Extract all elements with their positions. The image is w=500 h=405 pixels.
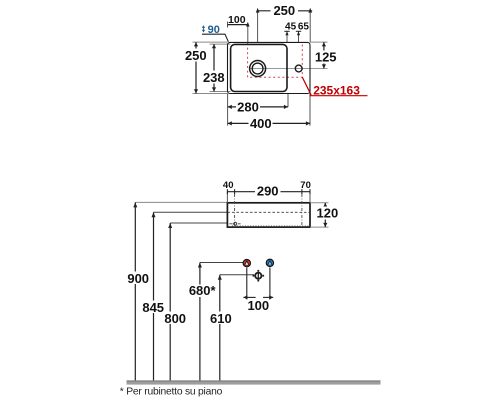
extension left edge up bbox=[227, 22, 229, 28]
arrowhead 845 bbox=[152, 212, 156, 217]
tick 40 left bbox=[226, 189, 228, 194]
svg-text:290: 290 bbox=[257, 183, 279, 198]
basin outer rect (top view) bbox=[228, 42, 311, 93]
svg-text:45: 45 bbox=[285, 22, 297, 33]
blue height symbol bbox=[202, 25, 205, 32]
extension line inner top left bbox=[210, 43, 231, 45]
red leader diagonal bbox=[302, 77, 311, 95]
centerline through holes bbox=[250, 68, 328, 70]
dotted bottom line bbox=[232, 225, 309, 227]
dim line 800 bbox=[169, 223, 171, 380]
dim 100 vertical left bbox=[246, 268, 248, 300]
dim line 845 bbox=[153, 212, 155, 380]
svg-text:120: 120 bbox=[317, 206, 339, 221]
extension right edge down bbox=[309, 94, 311, 126]
extension line top edge right bbox=[310, 41, 328, 43]
extension line inner bottom left bbox=[210, 91, 231, 93]
extension 120 top bbox=[310, 202, 329, 204]
level line 610 bbox=[220, 274, 254, 276]
extension left edge down bbox=[227, 94, 229, 126]
dim line 40-290-70 bbox=[227, 191, 310, 193]
dim line 238 bbox=[213, 44, 215, 91]
dim line 900 bbox=[134, 202, 136, 380]
extension drain center up bbox=[257, 9, 259, 43]
hidden line 40 bbox=[234, 194, 236, 227]
svg-text:125: 125 bbox=[315, 49, 337, 64]
tick 70 right bbox=[309, 189, 311, 194]
dim 100 vertical right bbox=[269, 267, 271, 299]
dim line 400 bbox=[228, 122, 310, 124]
tick 70 left bbox=[301, 189, 303, 194]
extension line bottom edge left bbox=[193, 93, 228, 95]
arrowhead 125 bottom bbox=[322, 64, 326, 68]
stem 65 bbox=[298, 31, 300, 42]
level line 680 bbox=[200, 262, 244, 264]
svg-text:280: 280 bbox=[237, 100, 259, 115]
extension bowl-left up bbox=[247, 23, 249, 42]
dim line 250 left bbox=[195, 42, 197, 93]
svg-text:400: 400 bbox=[250, 116, 272, 131]
svg-text:800: 800 bbox=[164, 311, 186, 326]
arrowhead 100 bbox=[246, 22, 250, 27]
svg-text:680*: 680* bbox=[189, 283, 217, 298]
arrowhead 238 top bbox=[212, 44, 216, 48]
svg-text:238: 238 bbox=[203, 70, 225, 85]
extension 120 bottom bbox=[310, 226, 329, 228]
extension line top edge left bbox=[193, 41, 228, 43]
front basin rect bbox=[227, 203, 310, 227]
dim line 125 bbox=[323, 42, 325, 68]
stem 45 bbox=[286, 31, 288, 42]
arrowhead 680 bbox=[198, 263, 202, 268]
arrowhead 125 top bbox=[322, 42, 326, 46]
arrowhead 65 stem bbox=[297, 31, 300, 35]
dim line 280 bbox=[228, 106, 288, 108]
level line 800 bbox=[170, 222, 227, 224]
tick 400 left bbox=[228, 121, 232, 125]
drain hole outer bbox=[250, 61, 266, 77]
dim line 610 bbox=[219, 275, 221, 381]
basin inner rect (top view) bbox=[231, 44, 287, 91]
cold tap symbol bbox=[266, 259, 273, 266]
extension inner-right down bbox=[287, 94, 289, 108]
leader 90 bbox=[202, 34, 228, 42]
hidden line 70 bbox=[301, 194, 303, 227]
arrowhead 45 stem bbox=[285, 31, 288, 35]
dim line 120 bbox=[324, 203, 326, 227]
tick 280 right bbox=[284, 105, 288, 109]
svg-text:65: 65 bbox=[298, 22, 310, 33]
level line 900 bbox=[135, 201, 227, 203]
svg-text:100: 100 bbox=[247, 298, 269, 313]
dim line 100 bbox=[243, 296, 255, 298]
arrowhead 250 left bottom bbox=[194, 89, 198, 93]
dim line 100 top bbox=[228, 24, 248, 26]
extension 40-70 right bbox=[309, 192, 311, 203]
svg-text:610: 610 bbox=[210, 311, 232, 326]
svg-text:900: 900 bbox=[127, 271, 149, 286]
svg-text:250: 250 bbox=[273, 3, 295, 18]
drain trap detail bbox=[229, 222, 240, 225]
dim line 680 bbox=[199, 263, 201, 381]
hidden mid line bbox=[227, 211, 310, 213]
extension 40-70 left bbox=[226, 192, 228, 203]
bowl dashed rect 235x163 bbox=[248, 43, 303, 77]
floor bar bbox=[127, 380, 381, 381]
faucet hole bbox=[295, 65, 302, 72]
arrowhead 100 right bbox=[269, 295, 273, 299]
level line 845 bbox=[154, 211, 228, 213]
drain symbol bbox=[253, 270, 265, 282]
arrowhead 250 top right bbox=[308, 8, 312, 13]
cap 65 bbox=[296, 30, 301, 32]
svg-text:40: 40 bbox=[223, 180, 234, 191]
svg-text:100: 100 bbox=[228, 14, 246, 26]
svg-text:845: 845 bbox=[142, 300, 164, 315]
cap 45 bbox=[284, 30, 289, 32]
arrowhead 238 bottom bbox=[212, 87, 216, 91]
tick 400 right bbox=[306, 121, 310, 125]
arrowhead 800 bbox=[168, 223, 172, 228]
svg-text:* Per rubinetto su piano: * Per rubinetto su piano bbox=[120, 386, 223, 397]
arrowhead 250 top left bbox=[256, 8, 260, 13]
dim line 250 top bbox=[258, 10, 313, 12]
extension right edge up bbox=[309, 9, 311, 43]
tick 280 left bbox=[228, 105, 232, 109]
arrowhead 120 bottom bbox=[323, 223, 327, 227]
svg-text:235x163: 235x163 bbox=[313, 84, 360, 98]
hot tap symbol bbox=[243, 259, 250, 266]
svg-text:250: 250 bbox=[185, 48, 207, 63]
tick 40 right bbox=[234, 189, 236, 194]
arrowhead 120 top bbox=[323, 203, 327, 207]
svg-text:70: 70 bbox=[300, 180, 311, 191]
arrowhead 250 left top bbox=[194, 42, 198, 46]
arrowhead 900 bbox=[133, 202, 137, 207]
red underline bbox=[310, 95, 368, 97]
drain hole inner bbox=[252, 63, 263, 74]
arrowhead 610 bbox=[218, 275, 222, 280]
arrowhead 100 left bbox=[243, 295, 247, 299]
